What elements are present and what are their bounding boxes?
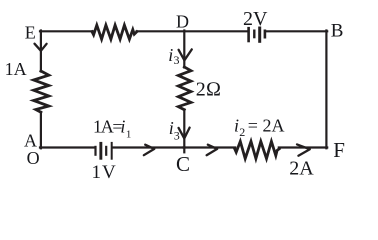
wire left side E to resistor [40, 31, 42, 72]
svg-text:2V: 2V [243, 8, 268, 30]
current arrow 2A (bottom wire before F, pointing right) [297, 144, 310, 155]
current arrow 1A (left branch, pointing down) [35, 44, 47, 51]
wire top segment battery 2V to B [266, 30, 327, 32]
battery 1V (bottom, plates short-tall-short-tall) [94, 146, 96, 156]
svg-text:D: D [176, 12, 189, 32]
svg-text:2A: 2A [289, 157, 314, 179]
svg-text:2Ω: 2Ω [196, 78, 221, 100]
wire left side resistor to A [40, 112, 42, 148]
wire bottom resistor to F [279, 146, 327, 148]
resistor R2 (left branch E-A) [34, 71, 49, 112]
wire middle D to resistor 2ohm [183, 31, 185, 68]
svg-text:1: 1 [126, 129, 131, 141]
svg-text:3: 3 [174, 53, 180, 67]
current arrow i3 upper (middle branch, pointing down) [179, 49, 192, 60]
wire bottom A to battery 1V [40, 146, 95, 148]
svg-text:E: E [25, 22, 36, 42]
svg-text:i: i [120, 117, 125, 137]
wire bottom battery 1V to C [113, 146, 185, 148]
svg-text:O: O [27, 148, 40, 168]
svg-text:i: i [168, 45, 173, 65]
wire right side B to F [325, 31, 327, 149]
svg-text:1A: 1A [5, 59, 27, 79]
svg-text:1V: 1V [92, 162, 117, 183]
svg-text:1A=: 1A= [93, 117, 122, 137]
svg-text:C: C [176, 152, 190, 176]
wire middle resistor to C with overshoot below bottom wire [183, 110, 185, 153]
current arrow after C (bottom wire, pointing right) [207, 145, 218, 156]
svg-text:3: 3 [174, 128, 180, 142]
wire top segment E to resistor [40, 30, 93, 32]
resistor R3 2 ohm (middle branch) [178, 67, 191, 110]
battery 2V (top, plates tall-short-tall-short) [247, 27, 250, 42]
wire top segment resistor to D to battery 2V [137, 30, 248, 32]
wire bottom C to resistor [184, 146, 236, 148]
resistor R4 (between C and F) [235, 141, 280, 158]
svg-text:F: F [333, 138, 345, 162]
svg-text:B: B [331, 21, 344, 42]
svg-text:= 2A: = 2A [248, 116, 285, 136]
resistor R1 (between E and D) [92, 25, 137, 39]
current arrow i1 (bottom wire after 1V battery, pointing right) [144, 145, 155, 156]
svg-text:2: 2 [239, 125, 245, 139]
current arrow i3 lower (middle branch, pointing down) [179, 128, 190, 139]
